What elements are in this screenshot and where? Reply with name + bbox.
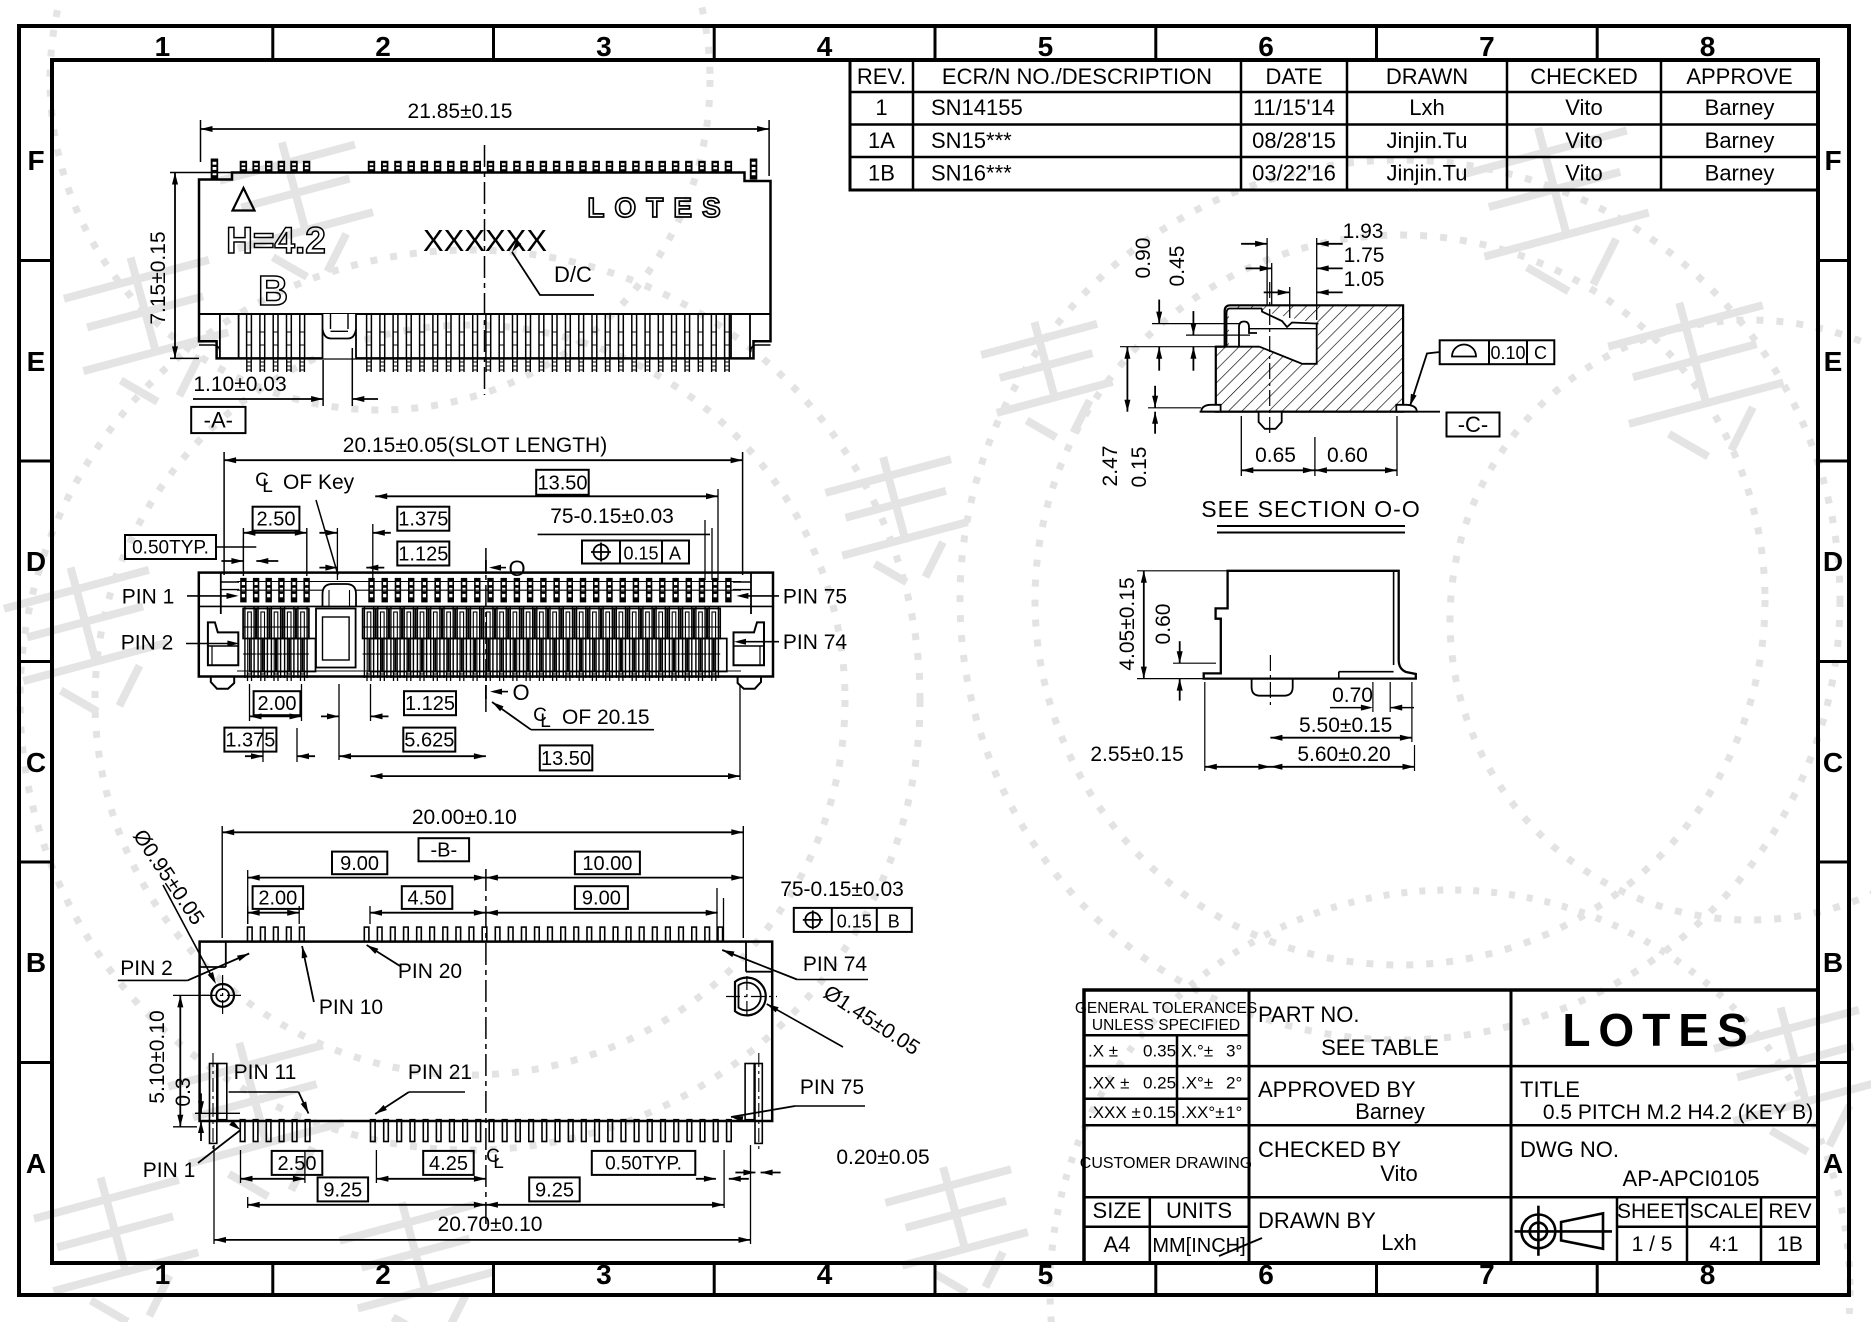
svg-text:4: 4 xyxy=(817,1259,833,1290)
svg-text:0.45: 0.45 xyxy=(1166,246,1189,287)
svg-text:DWG NO.: DWG NO. xyxy=(1520,1137,1619,1162)
svg-text:UNLESS SPECIFIED: UNLESS SPECIFIED xyxy=(1092,1017,1240,1034)
svg-text:Jinjin.Tu: Jinjin.Tu xyxy=(1386,128,1467,153)
svg-text:13.50: 13.50 xyxy=(537,472,587,494)
svg-text:O: O xyxy=(508,556,525,581)
svg-text:0.20±0.05: 0.20±0.05 xyxy=(836,1146,929,1169)
svg-text:1.93: 1.93 xyxy=(1343,220,1384,243)
svg-text:7: 7 xyxy=(1479,31,1495,62)
svg-text:0.10: 0.10 xyxy=(1490,343,1525,363)
svg-text:10.00: 10.00 xyxy=(582,853,632,875)
svg-text:03/22'16: 03/22'16 xyxy=(1252,161,1336,186)
svg-text:20.70±0.10: 20.70±0.10 xyxy=(438,1213,543,1236)
svg-text:SIZE: SIZE xyxy=(1093,1198,1142,1223)
svg-text:L: L xyxy=(540,711,551,732)
svg-text:1A: 1A xyxy=(868,128,895,153)
svg-text:PIN 2: PIN 2 xyxy=(121,632,174,655)
svg-text:Lxh: Lxh xyxy=(1409,95,1444,120)
svg-text:PIN 10: PIN 10 xyxy=(319,996,383,1019)
svg-text:B: B xyxy=(26,947,46,978)
svg-text:5: 5 xyxy=(1038,31,1054,62)
svg-text:1B: 1B xyxy=(1777,1233,1803,1256)
svg-text:Jinjin.Tu: Jinjin.Tu xyxy=(1386,161,1467,186)
svg-text:0.60: 0.60 xyxy=(1152,604,1175,645)
svg-text:XXXXXX: XXXXXX xyxy=(423,223,547,258)
svg-text:Vito: Vito xyxy=(1565,128,1603,153)
svg-text:DRAWN: DRAWN xyxy=(1386,64,1468,89)
svg-text:PIN 1: PIN 1 xyxy=(143,1159,196,1182)
svg-text:0.15: 0.15 xyxy=(837,911,872,931)
svg-text:0.65: 0.65 xyxy=(1255,444,1296,467)
svg-text:0.50TYP.: 0.50TYP. xyxy=(132,538,209,559)
svg-text:MM[INCH]: MM[INCH] xyxy=(1152,1235,1245,1257)
svg-text:PIN 2: PIN 2 xyxy=(120,957,173,980)
svg-text:GENERAL TOLERANCES: GENERAL TOLERANCES xyxy=(1075,1000,1257,1017)
svg-text:APPROVE: APPROVE xyxy=(1686,64,1792,89)
svg-text:OF 20.15: OF 20.15 xyxy=(562,706,650,729)
svg-text:OF Key: OF Key xyxy=(283,471,355,494)
svg-text:PIN 75: PIN 75 xyxy=(800,1076,864,1099)
svg-text:0.3: 0.3 xyxy=(172,1077,195,1106)
svg-text:SN15***: SN15*** xyxy=(931,128,1012,153)
svg-text:1.05: 1.05 xyxy=(1344,268,1385,291)
svg-text:SCALE: SCALE xyxy=(1690,1200,1759,1223)
svg-text:1.375: 1.375 xyxy=(398,509,448,531)
svg-text:21.85±0.15: 21.85±0.15 xyxy=(408,100,513,123)
svg-text:SN14155: SN14155 xyxy=(931,95,1023,120)
svg-text:B: B xyxy=(1823,947,1843,978)
svg-text:-A-: -A- xyxy=(204,408,233,433)
svg-text:-C-: -C- xyxy=(1458,412,1489,437)
svg-text:6: 6 xyxy=(1258,31,1274,62)
svg-text:UNITS: UNITS xyxy=(1166,1198,1232,1223)
svg-text:O: O xyxy=(512,680,529,705)
svg-text:CHECKED: CHECKED xyxy=(1530,64,1638,89)
svg-text:8: 8 xyxy=(1700,31,1716,62)
svg-text:0.90: 0.90 xyxy=(1132,238,1155,279)
svg-text:5.625: 5.625 xyxy=(404,730,454,752)
svg-text:E: E xyxy=(27,346,46,377)
svg-text:3: 3 xyxy=(596,31,612,62)
svg-text:9.00: 9.00 xyxy=(340,853,379,875)
svg-text:D: D xyxy=(26,546,46,577)
svg-text:.XXX ±: .XXX ± xyxy=(1088,1103,1141,1122)
svg-text:5.60±0.20: 5.60±0.20 xyxy=(1297,743,1390,766)
svg-text:B: B xyxy=(888,911,900,931)
svg-text:F: F xyxy=(27,145,44,176)
svg-text:1°: 1° xyxy=(1226,1103,1242,1122)
svg-text:DRAWN BY: DRAWN BY xyxy=(1258,1208,1376,1233)
svg-text:08/28'15: 08/28'15 xyxy=(1252,128,1336,153)
svg-text:0.60: 0.60 xyxy=(1327,444,1368,467)
svg-text:X.°±: X.°± xyxy=(1181,1042,1213,1061)
svg-text:20.15±0.05(SLOT LENGTH): 20.15±0.05(SLOT LENGTH) xyxy=(343,434,607,457)
svg-text:2°: 2° xyxy=(1226,1073,1242,1092)
svg-text:13.50: 13.50 xyxy=(541,748,591,770)
svg-text:75-0.15±0.03: 75-0.15±0.03 xyxy=(780,878,904,901)
svg-text:0.5 PITCH M.2 H4.2 (KEY B): 0.5 PITCH M.2 H4.2 (KEY B) xyxy=(1543,1101,1813,1124)
svg-text:1.75: 1.75 xyxy=(1344,244,1385,267)
svg-text:TITLE: TITLE xyxy=(1520,1077,1580,1102)
svg-text:.X ±: .X ± xyxy=(1088,1042,1118,1061)
svg-text:1 / 5: 1 / 5 xyxy=(1632,1233,1673,1256)
svg-text:L: L xyxy=(262,476,273,497)
svg-text:0.15: 0.15 xyxy=(1143,1103,1176,1122)
svg-text:5: 5 xyxy=(1038,1259,1054,1290)
svg-text:Barney: Barney xyxy=(1355,1099,1425,1124)
svg-text:2.47: 2.47 xyxy=(1099,446,1122,487)
svg-text:LOTES: LOTES xyxy=(1562,1004,1755,1056)
svg-text:PIN 75: PIN 75 xyxy=(783,585,847,608)
svg-text:1: 1 xyxy=(875,95,887,120)
svg-text:0.35: 0.35 xyxy=(1143,1042,1176,1061)
svg-text:9.25: 9.25 xyxy=(535,1179,574,1201)
svg-text:C: C xyxy=(1534,343,1547,363)
svg-text:SN16***: SN16*** xyxy=(931,161,1012,186)
svg-text:1.125: 1.125 xyxy=(398,544,448,566)
svg-text:SEE SECTION O-O: SEE SECTION O-O xyxy=(1201,496,1420,522)
svg-text:H=4.2: H=4.2 xyxy=(226,220,326,261)
svg-text:PIN 74: PIN 74 xyxy=(783,631,848,654)
svg-text:ECR/N NO./DESCRIPTION: ECR/N NO./DESCRIPTION xyxy=(942,64,1212,89)
svg-text:PART NO.: PART NO. xyxy=(1258,1002,1359,1027)
svg-text:1: 1 xyxy=(155,31,171,62)
svg-text:B: B xyxy=(258,267,288,314)
svg-text:2: 2 xyxy=(375,1259,391,1290)
svg-text:2: 2 xyxy=(375,31,391,62)
svg-text:4.50: 4.50 xyxy=(408,888,447,910)
svg-text:L: L xyxy=(493,1152,504,1173)
svg-text:SHEET: SHEET xyxy=(1617,1200,1687,1223)
svg-text:1: 1 xyxy=(155,1259,171,1290)
svg-text:1.375: 1.375 xyxy=(225,730,275,752)
svg-text:A: A xyxy=(1823,1148,1843,1179)
svg-text:2.50: 2.50 xyxy=(278,1153,317,1175)
svg-text:LOTES: LOTES xyxy=(587,192,730,223)
svg-text:DATE: DATE xyxy=(1265,64,1322,89)
svg-text:C: C xyxy=(26,747,46,778)
svg-text:A: A xyxy=(26,1148,46,1179)
svg-text:.XX ±: .XX ± xyxy=(1088,1073,1129,1092)
svg-text:Vito: Vito xyxy=(1565,95,1603,120)
svg-text:0.15: 0.15 xyxy=(623,544,658,564)
svg-text:PIN 21: PIN 21 xyxy=(408,1061,472,1084)
svg-text:4.25: 4.25 xyxy=(429,1153,468,1175)
svg-text:Lxh: Lxh xyxy=(1381,1230,1416,1255)
svg-text:2.50: 2.50 xyxy=(257,509,296,531)
svg-text:A4: A4 xyxy=(1104,1232,1131,1257)
svg-text:4: 4 xyxy=(817,31,833,62)
svg-text:PIN 11: PIN 11 xyxy=(234,1061,297,1084)
svg-text:5.50±0.15: 5.50±0.15 xyxy=(1299,714,1392,737)
svg-text:SEE TABLE: SEE TABLE xyxy=(1321,1035,1439,1060)
svg-text:0.15: 0.15 xyxy=(1128,447,1151,488)
svg-text:Barney: Barney xyxy=(1705,128,1775,153)
svg-text:D/C: D/C xyxy=(554,262,592,287)
svg-text:Vito: Vito xyxy=(1380,1161,1418,1186)
svg-text:4:1: 4:1 xyxy=(1709,1233,1738,1256)
svg-text:75-0.15±0.03: 75-0.15±0.03 xyxy=(550,505,674,528)
svg-text:C: C xyxy=(1823,747,1843,778)
svg-text:PIN 1: PIN 1 xyxy=(122,585,175,608)
svg-text:9.25: 9.25 xyxy=(323,1179,362,1201)
svg-text:A: A xyxy=(669,544,681,564)
svg-text:0.25: 0.25 xyxy=(1143,1073,1176,1092)
svg-text:CHECKED BY: CHECKED BY xyxy=(1258,1137,1401,1162)
svg-text:REV.: REV. xyxy=(857,64,906,89)
svg-text:2.00: 2.00 xyxy=(258,693,297,715)
svg-text:Barney: Barney xyxy=(1705,95,1775,120)
svg-text:REV: REV xyxy=(1768,1200,1811,1223)
svg-text:3: 3 xyxy=(596,1259,612,1290)
svg-text:AP-APCI0105: AP-APCI0105 xyxy=(1623,1166,1760,1191)
svg-text:Vito: Vito xyxy=(1565,161,1603,186)
svg-text:2.55±0.15: 2.55±0.15 xyxy=(1090,743,1183,766)
svg-text:7.15±0.15: 7.15±0.15 xyxy=(147,231,170,324)
svg-text:0.50TYP.: 0.50TYP. xyxy=(605,1154,682,1175)
svg-text:2.00: 2.00 xyxy=(258,888,297,910)
svg-text:1B: 1B xyxy=(868,161,895,186)
svg-text:CUSTOMER DRAWING: CUSTOMER DRAWING xyxy=(1080,1155,1252,1172)
svg-text:20.00±0.10: 20.00±0.10 xyxy=(412,806,517,829)
svg-text:11/15'14: 11/15'14 xyxy=(1253,95,1335,120)
svg-text:F: F xyxy=(1824,145,1841,176)
svg-text:-B-: -B- xyxy=(430,840,457,862)
svg-text:1.125: 1.125 xyxy=(405,693,455,715)
svg-text:PIN 74: PIN 74 xyxy=(803,953,868,976)
svg-text:5.10±0.10: 5.10±0.10 xyxy=(146,1010,169,1103)
svg-text:.X°±: .X°± xyxy=(1181,1073,1213,1092)
svg-text:PIN 20: PIN 20 xyxy=(398,960,462,983)
svg-text:0.70: 0.70 xyxy=(1332,684,1373,707)
svg-text:D: D xyxy=(1823,546,1843,577)
svg-text:9.00: 9.00 xyxy=(582,888,621,910)
svg-text:3°: 3° xyxy=(1226,1042,1242,1061)
svg-text:Barney: Barney xyxy=(1705,161,1775,186)
svg-text:.XX°±: .XX°± xyxy=(1181,1103,1225,1122)
svg-text:E: E xyxy=(1824,346,1843,377)
svg-text:4.05±0.15: 4.05±0.15 xyxy=(1116,577,1139,670)
svg-text:1.10±0.03: 1.10±0.03 xyxy=(193,373,286,396)
